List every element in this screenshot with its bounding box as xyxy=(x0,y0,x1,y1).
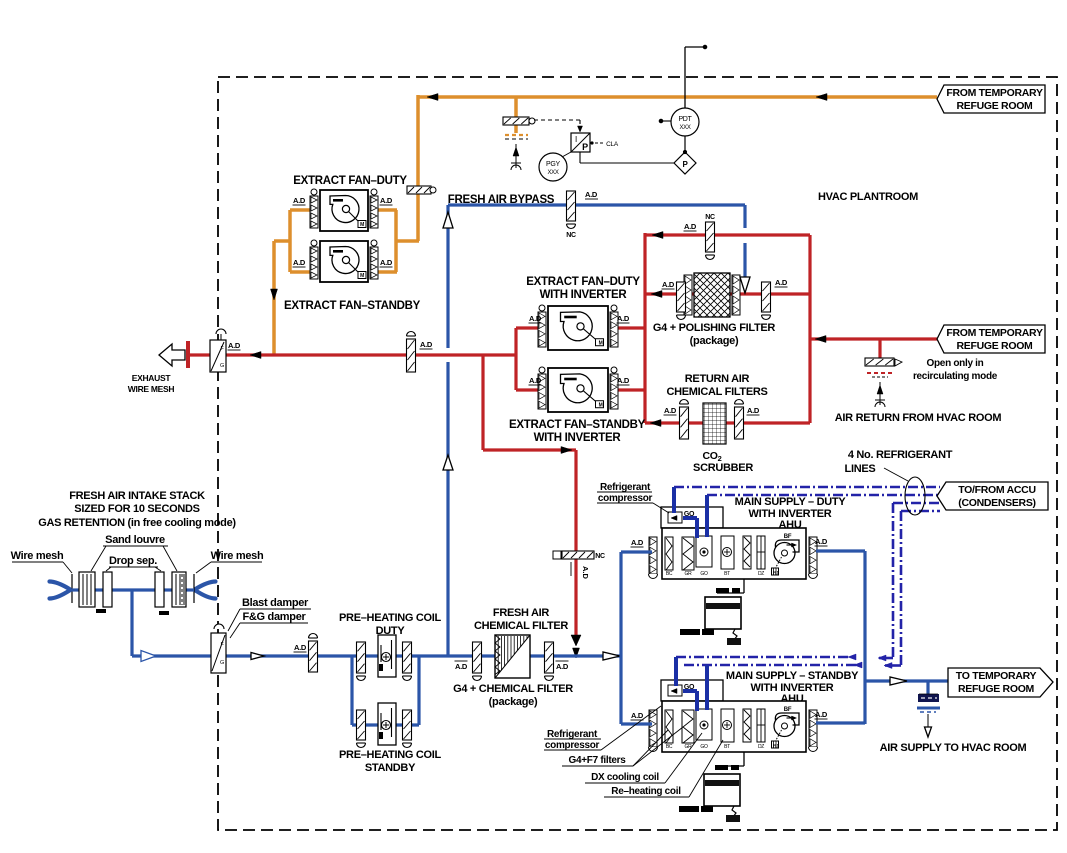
svg-text:A.D: A.D xyxy=(294,643,307,652)
svg-text:M: M xyxy=(360,222,364,228)
svg-text:HVAC PLANTROOM: HVAC PLANTROOM xyxy=(818,191,918,203)
svg-text:A.D: A.D xyxy=(529,376,542,385)
svg-text:Wire mesh: Wire mesh xyxy=(211,550,264,562)
svg-text:EXHAUST: EXHAUST xyxy=(132,373,172,383)
svg-text:I: I xyxy=(575,135,577,144)
svg-text:REFUGE ROOM: REFUGE ROOM xyxy=(956,100,1033,112)
svg-text:A.D: A.D xyxy=(815,710,828,719)
svg-text:A.D: A.D xyxy=(684,222,697,231)
svg-text:WIRE MESH: WIRE MESH xyxy=(128,384,175,394)
svg-text:A.D: A.D xyxy=(380,258,393,267)
svg-text:A.D: A.D xyxy=(529,314,542,323)
svg-text:LINES: LINES xyxy=(845,463,876,475)
svg-text:A.D: A.D xyxy=(815,537,828,546)
svg-text:REFUGE ROOM: REFUGE ROOM xyxy=(956,340,1033,352)
svg-text:BJ: BJ xyxy=(773,571,779,577)
svg-text:FRESH AIR INTAKE STACK: FRESH AIR INTAKE STACK xyxy=(69,490,205,502)
svg-text:GR: GR xyxy=(685,744,693,750)
svg-text:GAS RETENTION (in free cooling: GAS RETENTION (in free cooling mode) xyxy=(38,517,236,529)
svg-text:DZ: DZ xyxy=(758,571,764,577)
svg-text:A.D: A.D xyxy=(293,196,306,205)
svg-text:A.D: A.D xyxy=(631,711,644,720)
svg-text:F&G damper: F&G damper xyxy=(242,611,306,623)
svg-text:A.D: A.D xyxy=(617,376,630,385)
svg-text:recirculating mode: recirculating mode xyxy=(913,371,998,382)
svg-text:PRE–HEATING COIL: PRE–HEATING COIL xyxy=(339,749,442,761)
svg-text:WITH INVERTER: WITH INVERTER xyxy=(540,289,628,301)
svg-text:G: G xyxy=(220,363,224,369)
svg-text:(package): (package) xyxy=(690,335,739,347)
svg-text:Wire mesh: Wire mesh xyxy=(11,550,64,562)
svg-text:NC: NC xyxy=(595,553,605,560)
svg-text:PGY: PGY xyxy=(546,161,561,168)
svg-text:FRESH AIR: FRESH AIR xyxy=(493,607,550,619)
svg-text:FROM TEMPORARY: FROM TEMPORARY xyxy=(946,87,1043,99)
svg-text:A.D: A.D xyxy=(228,341,241,350)
svg-text:BF: BF xyxy=(784,707,792,713)
svg-text:SIZED FOR 10 SECONDS: SIZED FOR 10 SECONDS xyxy=(74,503,199,515)
svg-text:MAIN SUPPLY – DUTY: MAIN SUPPLY – DUTY xyxy=(735,496,847,508)
svg-text:Refrigerant: Refrigerant xyxy=(547,729,598,740)
svg-text:XXX: XXX xyxy=(679,125,690,131)
svg-text:TO TEMPORARY: TO TEMPORARY xyxy=(956,670,1037,682)
svg-text:A.D: A.D xyxy=(455,662,468,671)
svg-text:DX cooling coil: DX cooling coil xyxy=(591,772,659,783)
svg-text:Re–heating coil: Re–heating coil xyxy=(611,786,681,797)
svg-text:TO/FROM ACCU: TO/FROM ACCU xyxy=(958,484,1035,496)
svg-text:PRE–HEATING COIL: PRE–HEATING COIL xyxy=(339,612,442,624)
svg-text:A.D: A.D xyxy=(581,566,590,580)
svg-text:Sand louvre: Sand louvre xyxy=(105,534,165,546)
svg-text:A.D: A.D xyxy=(775,278,788,287)
svg-text:REFUGE ROOM: REFUGE ROOM xyxy=(958,683,1035,695)
svg-text:GR: GR xyxy=(685,571,693,577)
svg-text:EXTRACT FAN–STANDBY: EXTRACT FAN–STANDBY xyxy=(509,419,646,431)
svg-text:WITH INVERTER: WITH INVERTER xyxy=(534,432,622,444)
svg-text:A.D: A.D xyxy=(293,258,306,267)
svg-text:BC: BC xyxy=(666,571,673,577)
svg-text:GO: GO xyxy=(700,571,708,577)
svg-text:XXX: XXX xyxy=(547,170,558,176)
svg-text:STANDBY: STANDBY xyxy=(365,762,416,774)
svg-text:A.D: A.D xyxy=(631,538,644,547)
svg-text:EXTRACT FAN–DUTY: EXTRACT FAN–DUTY xyxy=(526,276,640,288)
svg-text:G4 + POLISHING FILTER: G4 + POLISHING FILTER xyxy=(653,322,776,334)
svg-text:A.D: A.D xyxy=(617,314,630,323)
svg-text:BF: BF xyxy=(784,534,792,540)
svg-text:CHEMICAL FILTERS: CHEMICAL FILTERS xyxy=(666,386,767,398)
svg-text:(package): (package) xyxy=(489,696,538,708)
svg-text:FROM TEMPORARY: FROM TEMPORARY xyxy=(946,327,1043,339)
svg-text:M: M xyxy=(599,402,603,408)
svg-text:AIR SUPPLY TO HVAC ROOM: AIR SUPPLY TO HVAC ROOM xyxy=(880,742,1027,754)
svg-text:BJ: BJ xyxy=(773,744,779,750)
svg-text:BC: BC xyxy=(666,744,673,750)
svg-text:NC: NC xyxy=(566,232,576,239)
svg-text:DZ: DZ xyxy=(758,744,764,750)
svg-text:A.D: A.D xyxy=(664,406,677,415)
svg-text:RETURN AIR: RETURN AIR xyxy=(685,373,750,385)
svg-text:AIR RETURN FROM HVAC ROOM: AIR RETURN FROM HVAC ROOM xyxy=(835,412,1002,424)
svg-text:Open only in: Open only in xyxy=(927,358,984,369)
svg-text:GO: GO xyxy=(700,744,708,750)
svg-text:PDT: PDT xyxy=(678,116,692,123)
svg-text:A.D: A.D xyxy=(556,662,569,671)
svg-text:SCRUBBER: SCRUBBER xyxy=(693,462,753,474)
svg-text:EXTRACT FAN–STANDBY: EXTRACT FAN–STANDBY xyxy=(284,300,421,312)
svg-text:4 No. REFRIGERANT: 4 No. REFRIGERANT xyxy=(848,449,953,461)
svg-text:(CONDENSERS): (CONDENSERS) xyxy=(958,497,1036,509)
svg-text:compressor: compressor xyxy=(545,740,600,751)
svg-text:G4 + CHEMICAL FILTER: G4 + CHEMICAL FILTER xyxy=(453,683,573,695)
svg-text:Refrigerant: Refrigerant xyxy=(600,482,651,493)
svg-text:G4+F7 filters: G4+F7 filters xyxy=(569,755,627,766)
svg-text:M: M xyxy=(360,273,364,279)
svg-text:G: G xyxy=(220,660,224,666)
svg-text:CHEMICAL FILTER: CHEMICAL FILTER xyxy=(474,620,568,632)
svg-text:BT: BT xyxy=(724,571,730,577)
svg-text:A.D: A.D xyxy=(380,196,393,205)
svg-text:BT: BT xyxy=(724,744,730,750)
svg-text:A.D: A.D xyxy=(585,190,598,199)
svg-text:Blast damper: Blast damper xyxy=(242,597,309,609)
svg-text:A.D: A.D xyxy=(662,280,675,289)
svg-text:MAIN SUPPLY – STANDBY: MAIN SUPPLY – STANDBY xyxy=(726,670,859,682)
svg-text:EXTRACT FAN–DUTY: EXTRACT FAN–DUTY xyxy=(293,175,407,187)
svg-text:P: P xyxy=(582,142,588,152)
svg-text:compressor: compressor xyxy=(598,493,653,504)
svg-text:A.D: A.D xyxy=(747,406,760,415)
svg-text:Drop sep.: Drop sep. xyxy=(109,555,157,567)
svg-text:CLA: CLA xyxy=(606,141,619,148)
svg-text:M: M xyxy=(599,340,603,346)
svg-text:A.D: A.D xyxy=(420,340,433,349)
svg-text:NC: NC xyxy=(705,214,715,221)
